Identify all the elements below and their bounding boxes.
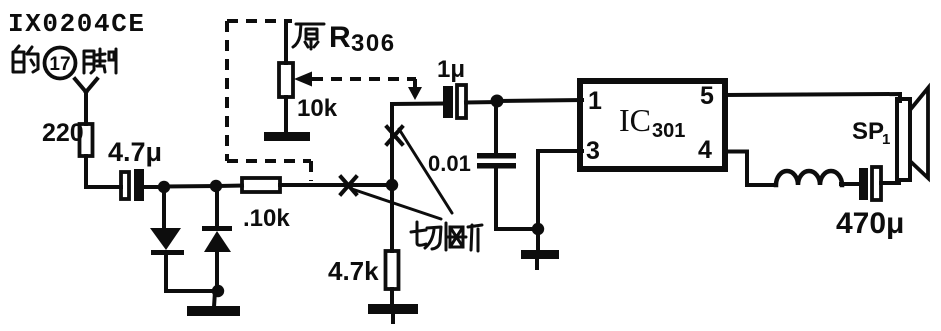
svg-text:4: 4 [698, 136, 712, 164]
wire IC pin 5 to speaker [725, 94, 900, 101]
label pin-17 Chinese "的" [13, 46, 38, 72]
capacitor 470u [859, 168, 868, 200]
dashed box original R306 [227, 19, 292, 23]
inductor L1 [776, 171, 842, 185]
wire node D top corner to C1u [392, 102, 443, 107]
svg-text:301: 301 [652, 120, 685, 142]
resistor 10k horizontal [242, 178, 280, 192]
diode D1 [162, 187, 166, 228]
wire fork to R220 [84, 91, 88, 124]
wire C1u to node E [466, 100, 497, 105]
label circled 17 [45, 48, 76, 79]
wire node E to IC pin 1 [497, 100, 582, 101]
wire C4.7u to node A [144, 185, 164, 189]
wire vertical node D up with cut mark [390, 104, 394, 185]
wire R4.7k to ground [390, 289, 394, 305]
arrow down to node E [408, 87, 422, 100]
wire node F to IC pin 3 [538, 151, 582, 229]
svg-text:IX0204CE: IX0204CE [8, 9, 146, 39]
node E junction [491, 95, 504, 108]
svg-text:17: 17 [49, 54, 70, 75]
svg-text:10k: 10k [297, 95, 338, 122]
pointer line to X1 [399, 129, 452, 213]
svg-text:R: R [329, 21, 351, 54]
wiper arrow into R306 [294, 72, 312, 87]
wire node B to R10k [219, 184, 242, 189]
node D junction [386, 179, 398, 191]
ground G3 [264, 132, 310, 141]
wire IC pin 4 to inductor [725, 152, 776, 186]
resistor 220 [80, 124, 93, 156]
wire top to R306 [284, 22, 288, 63]
resistor R306 10k [279, 63, 293, 97]
wire R306 to ground [284, 97, 288, 133]
svg-text:4.7μ: 4.7μ [108, 137, 162, 167]
label Chinese "脚" [84, 49, 116, 73]
capacitor 0.01 [477, 153, 516, 159]
capacitor 1u [443, 86, 453, 118]
wire node A to node B [164, 184, 216, 189]
wire node D to R4.7k [390, 185, 394, 251]
svg-text:3: 3 [586, 137, 600, 165]
node B junction [210, 180, 222, 192]
dashed wiper wire [312, 77, 416, 81]
ground G2 [368, 304, 418, 314]
svg-text:SP: SP [852, 118, 884, 145]
capacitor 4.7u [121, 172, 129, 199]
svg-text:1μ: 1μ [437, 56, 465, 83]
label original R306 [293, 24, 324, 49]
svg-text:0.01: 0.01 [428, 151, 471, 176]
ground G4 [536, 229, 540, 251]
input terminal fork [75, 79, 97, 92]
node F junction [532, 223, 544, 235]
node A junction [158, 181, 170, 193]
wire node E down to C0.01 [494, 101, 498, 154]
label qieduan (cut) [411, 222, 482, 251]
resistor 4.7k [386, 251, 399, 289]
node C junction [212, 285, 224, 297]
svg-text:4.7k: 4.7k [328, 256, 379, 286]
svg-text:.10k: .10k [243, 205, 290, 232]
svg-text:306: 306 [351, 30, 396, 57]
op-amp IC301 box [580, 81, 725, 169]
wire D1 bottom to node C [166, 289, 218, 293]
pointer line to X2 [352, 189, 441, 219]
wire C470u to speaker [881, 181, 899, 185]
wire R10k to cut mark [280, 183, 388, 187]
wire inductor to C470u [841, 182, 860, 186]
ground G1 [214, 291, 215, 307]
svg-text:1: 1 [588, 87, 602, 115]
wire C0.01 to node F [496, 168, 538, 229]
cut mark X1 [387, 127, 402, 144]
diode D2 [215, 186, 219, 226]
wire R220 to C4.7u [86, 156, 121, 187]
svg-text:470μ: 470μ [836, 207, 904, 240]
svg-text:5: 5 [700, 82, 714, 110]
svg-text:1: 1 [882, 131, 890, 148]
speaker SP1 [897, 99, 910, 180]
svg-text:IC: IC [619, 102, 651, 138]
cut mark X2 [341, 177, 356, 194]
svg-text:220: 220 [42, 119, 84, 147]
